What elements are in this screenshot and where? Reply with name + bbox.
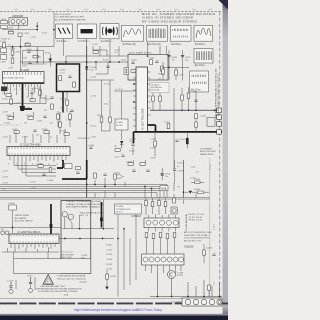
wire right of IC1206	[59, 238, 114, 240]
right margin tick labels	[210, 164, 216, 285]
components below black bus right	[174, 132, 189, 150]
capacitor C1205	[167, 50, 177, 68]
IC1008	[3, 69, 45, 87]
bundle vertical drops center	[95, 178, 125, 198]
capacitor C1004	[26, 49, 38, 63]
labels under IC1203 pins	[8, 163, 66, 165]
nested feedback wires	[14, 160, 56, 176]
filter sub-box	[23, 51, 44, 65]
safety note text	[56, 275, 87, 284]
resistor R1580 box	[9, 203, 17, 233]
left mid components	[0, 86, 71, 133]
VOL box	[160, 186, 168, 191]
diagonal wires	[65, 217, 72, 229]
components lower center	[115, 133, 156, 156]
capacitor C1207	[181, 50, 191, 67]
right page edge shadow	[223, 0, 228, 320]
components mid column	[59, 92, 74, 135]
wires above IC1203	[10, 129, 65, 143]
diode V1016	[85, 67, 96, 72]
decoder module box	[61, 201, 91, 274]
transistor T2 circle	[68, 214, 73, 219]
wire left of IC1207	[87, 80, 136, 140]
wire vertical x20	[4, 37, 21, 72]
labels center mid	[90, 77, 156, 160]
wire into module	[100, 42, 167, 56]
wire bus y46	[0, 12, 54, 47]
wires left of CW1506	[118, 214, 136, 297]
connector CW1004	[132, 214, 180, 232]
thick bus stub	[57, 160, 87, 179]
waveform box W8 (comb)	[194, 49, 213, 68]
resistors above bundle mid	[126, 160, 150, 171]
waveform box W4 (sine)	[122, 26, 144, 46]
connector CW1506	[142, 245, 194, 273]
waveform box W3 (modulated envelope)	[100, 24, 119, 43]
speckle labels lower-left	[2, 171, 36, 191]
top-right corner dark wedge	[219, 0, 229, 10]
box with circle	[171, 207, 177, 214]
components between buses	[195, 114, 215, 132]
waveform box W7 (sine tall)	[194, 26, 213, 46]
IC U1206	[9, 231, 59, 244]
arrow tap	[36, 26, 38, 29]
bottom-right connector CP1508	[171, 298, 222, 306]
IC U1203	[7, 144, 70, 156]
components above gray bus right	[174, 87, 198, 131]
coil L1202	[124, 68, 129, 75]
thick bar node	[50, 204, 52, 240]
transistor T1 circle	[62, 212, 67, 217]
schematic frame: bottom line	[0, 298, 222, 300]
labels right area	[177, 163, 199, 189]
diode V1001	[45, 52, 52, 66]
top-left note text	[55, 14, 86, 22]
gray bus to right edge	[150, 109, 217, 111]
components x86-114 mid	[78, 80, 112, 148]
IC1203 pin stubs below	[10, 156, 66, 163]
junction	[36, 29, 38, 31]
wire y62 main	[21, 47, 129, 62]
capacitor C1002	[18, 33, 29, 37]
waveform box W5 (comb burst)	[147, 26, 168, 46]
schematic frame: right dashed border	[219, 12, 221, 301]
saw filter box	[115, 119, 128, 130]
TY transform box	[115, 204, 142, 214]
right text lines	[189, 214, 205, 222]
left thick L-wire	[20, 84, 33, 111]
electrolytic caps right mid	[161, 168, 171, 180]
top edge tick marks	[14, 8, 212, 10]
speckle labels top-left column	[8, 27, 47, 69]
resistor row under CW1004	[145, 233, 176, 255]
components in nested wires	[36, 164, 53, 182]
resistor R1008	[10, 48, 16, 63]
IC U1207 (vertical)	[133, 67, 151, 132]
waveform box W2 (carrier block)	[77, 24, 96, 43]
connector CW1008	[9, 14, 28, 25]
wires below IC1008	[5, 87, 47, 98]
text under IC1206	[61, 252, 87, 260]
diode V1204	[120, 141, 123, 144]
section divider double rule	[0, 197, 210, 199]
thick bar node 2	[101, 202, 103, 228]
ton masse text	[200, 148, 216, 156]
wires in decoder module	[62, 200, 114, 229]
IC1206 pin stubs	[11, 244, 55, 250]
stereo decoder heading	[66, 200, 104, 217]
resistor block left R1001	[1, 19, 8, 28]
wire node top of module	[64, 39, 111, 65]
warning triangle	[43, 275, 53, 285]
resistor R1083	[191, 179, 204, 184]
edge connector squares	[217, 108, 222, 134]
schematic frame: heavy bottom dashed rule	[0, 302, 228, 304]
elco C1017	[27, 275, 35, 292]
oscillator label box	[150, 83, 169, 93]
elco C1018	[7, 280, 16, 294]
horizontal bus bundle	[0, 185, 167, 198]
schematic frame: top dashed border	[0, 11, 222, 13]
bottom dark scan band	[0, 316, 228, 320]
wire under caps	[160, 66, 189, 68]
speckle labels mid-left	[2, 97, 72, 139]
coil sym	[114, 173, 124, 179]
left edge pins	[1, 229, 9, 235]
waveform box W1 (triangles)	[56, 24, 73, 43]
thick bus (black) from IC to right edge	[134, 125, 223, 143]
IC1008 pin labels below	[2, 89, 40, 91]
left column boxes	[1, 48, 7, 64]
transistor V1583	[168, 271, 184, 279]
labels left of module	[115, 50, 127, 62]
resistors right of IC1207	[152, 93, 170, 129]
right info text	[184, 231, 213, 242]
components above bottom connector	[203, 244, 216, 296]
paper noise overlay	[0, 0, 228, 313]
components right of IC1203	[65, 164, 81, 174]
resistor in circle	[194, 189, 207, 194]
components row y65-80 right	[158, 62, 184, 81]
resistor R1004	[8, 30, 14, 34]
cap C1048	[173, 160, 183, 184]
wire CW1008 to bus	[2, 22, 37, 30]
resistor right column	[105, 270, 116, 290]
audio IF module box	[124, 52, 168, 80]
schematic frame: inner right border	[209, 158, 211, 300]
wires upper center	[93, 46, 108, 74]
waveform box W9 (burst rows)	[190, 71, 209, 92]
resistor R1006	[0, 41, 5, 48]
module shield box (thick)	[57, 64, 80, 113]
waveform box W6 (burst rows)	[171, 26, 192, 46]
wire y227.5	[0, 227, 61, 229]
right area verticals	[174, 150, 209, 205]
main vertical bus	[86, 46, 88, 198]
transistor blob V1003	[20, 106, 26, 111]
resistor C082	[25, 42, 30, 45]
big blank box	[14, 259, 91, 274]
wires to bottom connector	[150, 271, 222, 297]
diode V1210	[189, 191, 193, 194]
page background	[0, 0, 228, 320]
wires below IC1206	[2, 247, 59, 259]
matrix text block	[15, 214, 33, 223]
labels right mid column	[106, 245, 112, 271]
resistors under divider feeding CW1004	[145, 198, 167, 215]
